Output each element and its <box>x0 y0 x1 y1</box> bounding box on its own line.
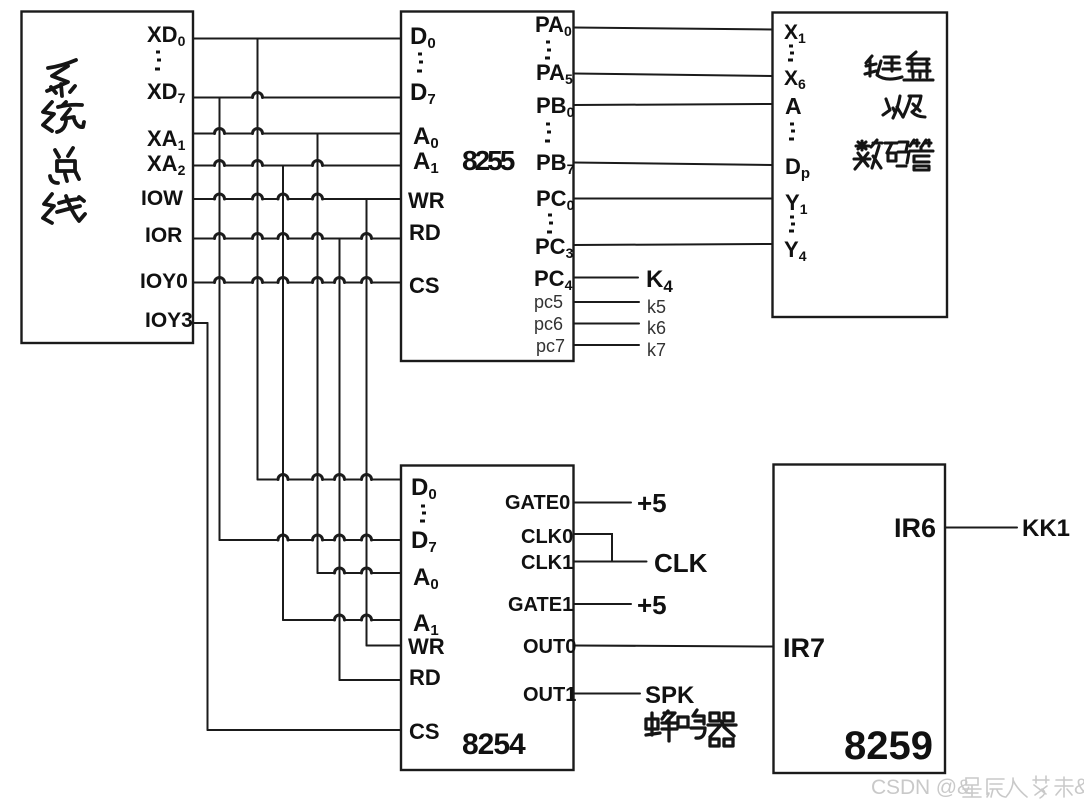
dots between PC0 and PC3 <box>547 215 553 232</box>
wire OUT1 to SPK <box>574 693 641 695</box>
dots between Y1 and Y4 <box>789 217 795 231</box>
svg-text:IOY0: IOY0 <box>140 270 188 293</box>
watermark char 梦 <box>1033 776 1049 798</box>
wire PC3 to Y4 <box>574 244 773 245</box>
svg-text:IOR: IOR <box>145 224 182 247</box>
svg-text:KK1: KK1 <box>1022 515 1070 542</box>
dots between PA0 and PA5 <box>545 42 551 58</box>
wire PC0 to Y1 <box>574 198 773 200</box>
wire PB0 to A <box>574 104 773 105</box>
8255 block U-8255 <box>401 12 574 362</box>
svg-text:+5: +5 <box>637 488 667 518</box>
hops of drop v2 <box>253 93 263 283</box>
svg-text:SPK: SPK <box>645 682 695 709</box>
wire drop v5 IOR bus <box>339 239 341 681</box>
wire 8254 D7 row <box>220 539 402 541</box>
char 以 (keyboard block title) <box>883 96 903 118</box>
svg-text:pc6: pc6 <box>534 314 563 334</box>
8254 block U-8254 <box>401 466 574 771</box>
char 统 (system bus title) <box>43 102 84 132</box>
hops of drop v1 <box>215 129 225 283</box>
svg-text:+5: +5 <box>637 590 667 620</box>
char 器 (buzzer label) <box>708 713 736 746</box>
svg-text:CLK1: CLK1 <box>521 552 573 574</box>
wire XD7 to D7 <box>193 97 401 99</box>
svg-text:CSDN @&: CSDN @& <box>871 776 971 799</box>
svg-text:&: & <box>1074 774 1084 799</box>
wire IOR to RD <box>193 238 401 240</box>
wire 8254 CS row <box>208 729 402 731</box>
keyboard/display block <box>773 13 948 318</box>
wire 8254 D0 row <box>258 479 402 481</box>
char 及 (keyboard block title) <box>903 96 925 117</box>
wire CLK0 <box>574 534 613 562</box>
wire drop v4 XA1 bus <box>317 134 319 574</box>
svg-text:CLK: CLK <box>654 548 708 578</box>
svg-text:IOW: IOW <box>141 187 183 210</box>
watermark char 来 <box>1055 777 1073 797</box>
watermark char 入 <box>1006 778 1027 797</box>
char 数 (keyboard block title) <box>854 140 882 169</box>
wire PB7 to Dp <box>574 163 773 166</box>
wire IOW to WR <box>193 198 401 200</box>
wire XD0 to D0 <box>193 38 401 40</box>
svg-text:k6: k6 <box>647 318 666 338</box>
svg-text:WR: WR <box>408 188 445 213</box>
char 线 (system bus title) <box>43 194 85 223</box>
svg-text:CS: CS <box>409 273 440 298</box>
wire pc6 to k6 <box>574 323 640 325</box>
wire 8254 A0 row <box>318 572 402 574</box>
wire drop v6 IOW bus <box>366 199 368 646</box>
8259 block U-8259 <box>774 465 946 774</box>
svg-text:k7: k7 <box>647 340 666 360</box>
char 蜂 (buzzer label) <box>646 711 677 741</box>
wire PA5 to X6 <box>574 74 773 77</box>
wire drop v1 XD7 bus <box>219 98 221 541</box>
system bus block U-BUS <box>22 12 194 344</box>
svg-text:IR7: IR7 <box>783 633 825 663</box>
dots between X1 and X6 <box>788 46 794 60</box>
wire OUT0 to IR7 <box>574 646 774 647</box>
dots between D0 and D7 (8254) <box>420 506 426 521</box>
wire XA2 to A1 <box>193 165 401 167</box>
svg-text:RD: RD <box>409 665 441 690</box>
wire 8254 RD row <box>340 679 402 681</box>
hops of 8254 A0 row <box>335 568 372 573</box>
svg-text:CLK0: CLK0 <box>521 526 573 548</box>
wire drop v2 XD0 bus <box>257 39 259 480</box>
svg-text:pc5: pc5 <box>534 292 563 312</box>
svg-text:GATE0: GATE0 <box>505 492 570 514</box>
wire IOY3 vertical drop to 8254 CS <box>207 323 209 730</box>
dots between A and Dp <box>789 124 795 139</box>
wire GATE1 to +5 <box>574 603 632 605</box>
char 管 (keyboard block title) <box>910 140 933 170</box>
hops of drop v3 <box>278 194 288 283</box>
hops of 8254 D0 row <box>278 475 372 480</box>
svg-text:8254: 8254 <box>462 728 526 761</box>
svg-text:CS: CS <box>409 719 440 744</box>
svg-text:8259: 8259 <box>844 724 933 768</box>
hops of 8254 D7 row <box>278 535 372 540</box>
svg-text:pc7: pc7 <box>536 336 565 356</box>
char 盘 (keyboard block title) <box>904 52 933 80</box>
svg-text:A: A <box>785 93 802 119</box>
hops of drop v4 <box>313 161 323 283</box>
svg-text:RD: RD <box>409 220 441 245</box>
svg-text:OUT0: OUT0 <box>523 636 576 658</box>
dots between PB0 and PB7 <box>545 124 551 141</box>
wire PA0 to X1 <box>574 28 773 30</box>
wire IR6 to KK1 <box>945 527 1017 529</box>
wire drop v3 XA2 bus <box>282 166 284 621</box>
char 系 (system bus title) <box>47 60 76 96</box>
svg-text:k5: k5 <box>647 297 666 317</box>
hops of 8254 A1 row <box>335 615 372 620</box>
dots between D0 and D7 (8255) <box>417 54 423 71</box>
wire 8254 WR row <box>367 645 402 647</box>
wire XA1 to A0 <box>193 133 401 135</box>
wire 8254 A1 row <box>283 619 401 621</box>
svg-text:OUT1: OUT1 <box>523 684 576 706</box>
lead tick of 键 (keyboard block title) <box>865 56 876 76</box>
svg-text:IOY3: IOY3 <box>145 309 193 332</box>
watermark char 辰 <box>987 779 1005 797</box>
wire pc5 to k5 <box>574 301 640 303</box>
svg-text:GATE1: GATE1 <box>508 594 573 616</box>
wire PC4 to K4 <box>574 277 639 279</box>
wire CLK1 to CLK <box>574 561 647 563</box>
char 键 (keyboard block title) <box>877 57 902 79</box>
svg-text:WR: WR <box>408 634 445 659</box>
char 码 (keyboard block title) <box>885 142 909 166</box>
hops of drop v6 <box>362 234 372 283</box>
char 总 (system bus title) <box>50 148 79 183</box>
dots between XD0 and XD7 <box>155 52 161 69</box>
char 鸣 (buzzer label) <box>678 710 705 738</box>
svg-text:8255: 8255 <box>462 145 515 176</box>
watermark char 星 <box>963 778 981 797</box>
wire IOY0 to CS <box>193 282 401 284</box>
wire IOY3 stub <box>193 322 208 324</box>
hops of drop v5 <box>335 278 345 283</box>
wire pc7 to k7 <box>574 344 640 346</box>
svg-text:IR6: IR6 <box>894 513 936 543</box>
wire GATE0 to +5 <box>574 502 632 504</box>
